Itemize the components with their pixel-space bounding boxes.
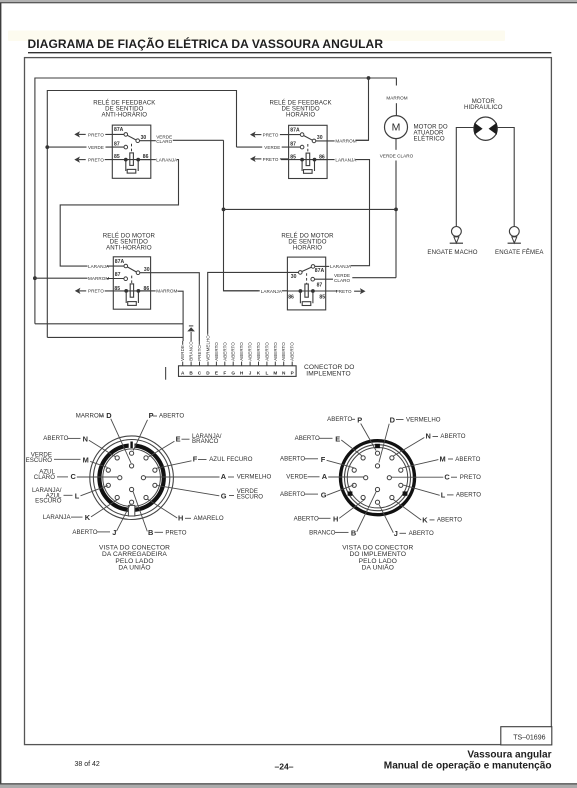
wire hydraulic right lead: [497, 128, 514, 227]
relay U2 coil: [306, 153, 310, 166]
svg-text:87: 87: [114, 141, 120, 147]
connector J2 pin ring 270: [375, 500, 379, 504]
relay U1 coil dashed link: [131, 144, 133, 153]
connector J2 pin inner 180: [364, 476, 368, 480]
svg-text:N: N: [282, 371, 286, 376]
svg-text:ABERTO: ABERTO: [256, 342, 261, 361]
quick coupler ENGATE MACHO: [452, 227, 462, 237]
wire U1 87A: [105, 133, 124, 135]
wire U2 87 VERDE: [237, 146, 263, 148]
svg-text:H: H: [333, 514, 338, 523]
relay U3 coil return: [126, 292, 138, 303]
svg-text:30: 30: [317, 135, 323, 141]
svg-text:H: H: [178, 514, 183, 523]
svg-text:M: M: [392, 122, 401, 134]
svg-text:G: G: [321, 491, 327, 500]
svg-text:ANTI-HORÁRIO: ANTI-HORÁRIO: [102, 111, 148, 118]
connector J1 pin inner 0: [141, 476, 145, 480]
svg-text:BRANCO: BRANCO: [309, 529, 336, 536]
svg-text:N: N: [426, 432, 431, 441]
svg-text:AMARELO: AMARELO: [194, 515, 224, 522]
svg-text:G: G: [231, 371, 235, 376]
connector J1 pin ring 342: [153, 483, 157, 487]
wire MARROM top bus: [35, 78, 397, 324]
relay U3 coil dashed link: [131, 276, 133, 284]
svg-text:PRETO: PRETO: [165, 529, 186, 536]
ground arrow pin B: [190, 332, 192, 341]
connector J2 pin ring 306: [390, 495, 394, 499]
arrow U1 85 PRETO: [74, 157, 80, 163]
svg-text:VERDE: VERDE: [264, 145, 280, 150]
svg-text:VERDE CLARO: VERDE CLARO: [380, 154, 414, 159]
wire U4 30 to pin D: [208, 272, 299, 333]
relay U2 bottom wire 85-86: [281, 159, 327, 161]
connector J2 pin inner 270: [375, 487, 379, 491]
svg-text:F: F: [223, 371, 226, 376]
connector J1 pin ring 18: [153, 468, 157, 472]
svg-text:M: M: [83, 455, 89, 464]
connector strip box: [179, 366, 297, 377]
svg-text:ABERTO: ABERTO: [295, 435, 320, 442]
motor M1 electric actuator: [385, 116, 408, 139]
svg-text:F: F: [193, 455, 198, 464]
arrow U2 85 PRETO: [250, 156, 256, 162]
wire U1 87 VERDE: [47, 146, 86, 148]
svg-text:A: A: [221, 472, 227, 481]
wire pin C riser: [198, 341, 200, 345]
connector J2 pin ring 18: [399, 468, 403, 472]
svg-text:PRETO: PRETO: [88, 158, 104, 163]
svg-text:PRETO: PRETO: [88, 132, 104, 137]
svg-text:LARANJA: LARANJA: [330, 264, 352, 269]
connector J2 pin inner 0: [387, 476, 391, 480]
relay U4 coil return: [300, 292, 313, 303]
relay U3 terminal dots 85 86: [124, 289, 128, 293]
TS-01696 box: [501, 727, 552, 745]
svg-text:N: N: [83, 434, 88, 443]
svg-text:BRANCO: BRANCO: [192, 438, 219, 445]
svg-text:87A: 87A: [114, 127, 124, 133]
arrow U2 87A PRETO: [250, 132, 256, 138]
svg-text:ABERTO: ABERTO: [280, 491, 305, 498]
relay U1 coil return: [126, 161, 138, 171]
connector J2 pin ring 234: [361, 495, 365, 499]
stray mark left of strip: [165, 367, 167, 380]
svg-text:ABERTO: ABERTO: [456, 492, 481, 499]
connector J2 pin ring 198: [352, 483, 356, 487]
svg-text:A: A: [322, 472, 328, 481]
connector J1 pin ring 126: [115, 456, 119, 460]
connector J1 pin ring 306: [144, 495, 148, 499]
svg-text:VERMELHO: VERMELHO: [237, 474, 272, 481]
connector J1 loader rings: [90, 436, 174, 520]
relay U4 pin 87A: [311, 265, 315, 269]
wire hydraulic left lead: [456, 128, 474, 227]
relay U2 switch blade: [304, 136, 313, 141]
connector J2 pin ring 54: [390, 456, 394, 460]
relay U3 coil: [130, 284, 133, 297]
connector J1 pin ring 90: [130, 451, 134, 455]
connector J1 pin ring 234: [115, 495, 119, 499]
relay U2 body: [289, 125, 328, 178]
junction node VERDE CLARO: [222, 208, 226, 212]
svg-text:PRETO: PRETO: [460, 474, 481, 481]
connector J1 pin ring 54: [144, 456, 148, 460]
connector J1 pin ring 198: [106, 483, 110, 487]
svg-text:ABERTO: ABERTO: [409, 530, 434, 537]
svg-text:87: 87: [115, 272, 121, 278]
relay U4 coil: [305, 284, 308, 297]
relay U1 body: [112, 125, 151, 178]
wire MARROM drop to relay U2 pin30: [356, 78, 369, 140]
wire U4 87A LARANJA: [315, 265, 329, 267]
title rule: [28, 52, 551, 54]
svg-text:ABERTO: ABERTO: [437, 517, 462, 524]
connector J2 pin ring 342: [399, 483, 403, 487]
svg-text:–24–: –24–: [274, 761, 293, 771]
junction node MARROM bus: [367, 76, 371, 80]
relay U4 coil dashed link: [306, 273, 308, 284]
relay U2 coil return: [302, 161, 314, 171]
svg-text:P: P: [357, 415, 362, 424]
wire U1 30 VERDE CLARO: [140, 140, 156, 142]
relay U2 coil dashed link: [307, 144, 309, 153]
connector J2 implement rings: [341, 441, 415, 515]
connector J1 pin inner 270: [130, 487, 134, 491]
svg-text:E: E: [215, 371, 218, 376]
svg-text:86: 86: [288, 294, 294, 300]
svg-text:PRETO: PRETO: [263, 133, 279, 138]
svg-text:DA UNIÃO: DA UNIÃO: [118, 563, 150, 572]
wire U4 85 PRETO arrow: [315, 290, 335, 292]
svg-text:MARROM: MARROM: [335, 139, 356, 144]
wire U1 86 LARANJA: [140, 159, 156, 161]
svg-text:VERDE: VERDE: [88, 145, 104, 150]
svg-text:DA UNIÃO: DA UNIÃO: [362, 563, 394, 572]
wire VERDE bus: [47, 91, 236, 338]
svg-text:ESCURO: ESCURO: [26, 457, 53, 464]
outer diagram frame: [25, 58, 552, 745]
svg-text:87: 87: [317, 283, 323, 289]
svg-text:C: C: [444, 473, 450, 482]
junction node VERDE at U1 pin87: [45, 145, 49, 149]
svg-text:K: K: [422, 515, 428, 524]
svg-text:ANTI-HORÁRIO: ANTI-HORÁRIO: [106, 245, 152, 252]
svg-text:F: F: [321, 455, 326, 464]
svg-text:HORÁRIO: HORÁRIO: [286, 111, 315, 118]
svg-text:E: E: [176, 434, 181, 443]
wire U3 86 MARROM loop: [140, 290, 155, 292]
svg-text:AZUL FECURO: AZUL FECURO: [209, 456, 253, 463]
relay U1 bottom wire 85-86: [105, 159, 151, 161]
svg-text:ENGATE MACHO: ENGATE MACHO: [427, 249, 477, 256]
svg-text:85: 85: [319, 294, 325, 300]
svg-text:CLARO: CLARO: [156, 139, 172, 144]
svg-text:30: 30: [291, 274, 297, 280]
wire MARROM bottom link: [35, 323, 183, 325]
svg-text:Vassoura angular: Vassoura angular: [467, 749, 551, 760]
svg-text:E: E: [335, 434, 340, 443]
relay U4 body: [287, 257, 325, 310]
svg-text:ABERTO: ABERTO: [281, 342, 286, 361]
svg-text:MARROM: MARROM: [386, 95, 407, 100]
arrow U3 85 PRETO: [75, 288, 81, 294]
svg-text:87A: 87A: [315, 268, 325, 274]
svg-text:LARANJA: LARANJA: [88, 264, 110, 269]
connector J1 pin ring 162: [106, 468, 110, 472]
svg-text:ESCURO: ESCURO: [237, 493, 264, 500]
relay U3 body: [113, 257, 150, 309]
hydraulic motor M2: [474, 117, 497, 140]
wire U4 87 VERDE CLARO: [315, 278, 334, 280]
svg-text:ABERTO: ABERTO: [264, 342, 269, 361]
svg-text:D: D: [390, 415, 396, 424]
wire U3 87 MARROM: [35, 277, 88, 279]
svg-text:HIDRAULICO: HIDRAULICO: [464, 104, 503, 111]
svg-text:L: L: [75, 491, 80, 500]
junction node MARROM at U3 pin87: [33, 276, 37, 280]
relay U1 coil: [130, 153, 134, 166]
wire M1 lead into U4 pin87: [352, 277, 396, 279]
svg-text:ABERTO: ABERTO: [239, 342, 244, 361]
svg-text:PRETO: PRETO: [336, 289, 352, 294]
connector J1 pin ring 270: [130, 500, 134, 504]
svg-text:CLARO: CLARO: [34, 474, 55, 481]
svg-text:ABERTO: ABERTO: [280, 456, 305, 463]
connector J1 pin inner 180: [118, 476, 122, 480]
svg-text:MARROM: MARROM: [88, 276, 109, 281]
svg-text:ABERTO: ABERTO: [222, 342, 227, 361]
svg-text:B: B: [351, 529, 356, 538]
svg-text:J: J: [249, 371, 252, 376]
junction node at M1 lead: [394, 208, 398, 212]
wire VERDE CLARO horizontal link: [224, 208, 397, 210]
svg-text:IMPLEMENTO: IMPLEMENTO: [306, 371, 350, 378]
svg-text:LARANJA: LARANJA: [43, 514, 72, 521]
motor M1 lead bottom: [395, 139, 397, 150]
svg-text:HORÁRIO: HORÁRIO: [293, 245, 322, 252]
wire U3 30 PRETO to pin C: [140, 273, 199, 341]
connector J1 key notches: [129, 442, 135, 448]
relay U2 terminal dots 85 86: [300, 158, 304, 162]
relay U1 terminal dots 85 86: [124, 158, 128, 162]
svg-text:B: B: [148, 528, 153, 537]
svg-text:PRETO: PRETO: [263, 157, 279, 162]
wire LARANJA U1-86 to U3-87A: [60, 160, 178, 267]
svg-text:PRETO: PRETO: [88, 289, 104, 294]
connector J1 pin inner 90: [130, 464, 134, 468]
relay U3 switch blade: [127, 267, 136, 272]
svg-text:ABERTO: ABERTO: [231, 342, 236, 361]
svg-text:J: J: [394, 529, 398, 538]
svg-text:M: M: [440, 454, 446, 463]
svg-text:PRETO: PRETO: [197, 345, 202, 361]
svg-text:VERMELHO: VERMELHO: [406, 416, 441, 423]
relay U4 pin 30: [299, 271, 303, 275]
svg-text:VERMELHO: VERMELHO: [206, 335, 211, 361]
svg-text:VERDE: VERDE: [180, 345, 185, 361]
svg-text:87A: 87A: [290, 127, 300, 133]
svg-text:VERDE: VERDE: [286, 474, 307, 481]
svg-text:K: K: [85, 513, 91, 522]
svg-text:A: A: [181, 371, 185, 376]
svg-text:M: M: [273, 371, 277, 376]
svg-text:ABERTO: ABERTO: [248, 342, 253, 361]
svg-text:ESCURO: ESCURO: [35, 498, 62, 505]
svg-text:38 of 42: 38 of 42: [75, 761, 100, 768]
wire U2 86 LARANJA: [316, 159, 334, 161]
relay U4 pin 87: [311, 277, 315, 281]
svg-text:ABERTO: ABERTO: [159, 413, 184, 420]
connector J2 pin inner 90: [375, 464, 379, 468]
svg-text:30: 30: [141, 135, 147, 141]
connector J2 pin ring 90: [375, 451, 379, 455]
svg-text:LARANJA: LARANJA: [335, 157, 357, 162]
svg-text:ABERTO: ABERTO: [214, 342, 219, 361]
relay U3 bottom wire 85-86: [105, 290, 151, 292]
svg-text:P: P: [291, 371, 294, 376]
wire pin A riser: [182, 341, 184, 345]
svg-text:L: L: [265, 371, 268, 376]
svg-text:LARANJA: LARANJA: [261, 289, 283, 294]
arrow U1 87A PRETO: [74, 131, 80, 137]
connector J2 key tabs: [375, 444, 380, 448]
svg-text:TS–01696: TS–01696: [513, 734, 545, 741]
svg-text:J: J: [112, 528, 116, 537]
svg-text:L: L: [441, 491, 446, 500]
relay U1 switch blade: [127, 135, 136, 140]
svg-text:ABERTO: ABERTO: [455, 456, 480, 463]
wire VERDE CLARO drop: [224, 140, 259, 290]
connector J2 pin ring 126: [361, 456, 365, 460]
svg-text:ABERTO: ABERTO: [290, 342, 295, 361]
svg-text:ABERTO: ABERTO: [273, 342, 278, 361]
relay U4 bottom wire 86-85: [287, 290, 337, 292]
svg-text:ABERTO: ABERTO: [72, 529, 97, 536]
svg-text:ENGATE FÊMEA: ENGATE FÊMEA: [495, 248, 544, 256]
svg-text:ABERTO: ABERTO: [440, 433, 465, 440]
svg-text:Manual de operação e manutençã: Manual de operação e manutenção: [384, 761, 552, 772]
quick coupler ENGATE FEMEA: [509, 227, 519, 237]
svg-text:LARANJA: LARANJA: [156, 157, 178, 162]
relay U4 switch blade: [302, 267, 311, 271]
svg-text:ABERTO: ABERTO: [327, 416, 352, 423]
wire LARANJA U2-86 to U4-87A: [350, 160, 369, 266]
svg-text:C: C: [71, 472, 77, 481]
wire pin D riser: [207, 333, 209, 335]
svg-text:ABERTO: ABERTO: [294, 515, 319, 522]
svg-text:CLARO: CLARO: [334, 278, 350, 283]
svg-text:G: G: [221, 491, 227, 500]
wire VERDE bottom link: [47, 336, 183, 338]
svg-text:P: P: [149, 411, 154, 420]
svg-text:ELÉTRICO: ELÉTRICO: [414, 135, 445, 142]
svg-text:MARROM: MARROM: [156, 289, 177, 294]
faint yellow watermark: [8, 31, 505, 42]
svg-text:BRANCO: BRANCO: [189, 341, 194, 361]
svg-text:ABERTO: ABERTO: [43, 435, 68, 442]
svg-text:DIAGRAMA DE FIAÇÃO ELÉTRICA DA: DIAGRAMA DE FIAÇÃO ELÉTRICA DA VASSOURA …: [28, 36, 384, 51]
wire U2 30 MARROM: [316, 140, 335, 142]
svg-text:87A: 87A: [115, 259, 125, 265]
relay U4 terminal dots 86 85: [299, 289, 303, 293]
connector J2 pin ring 162: [352, 468, 356, 472]
